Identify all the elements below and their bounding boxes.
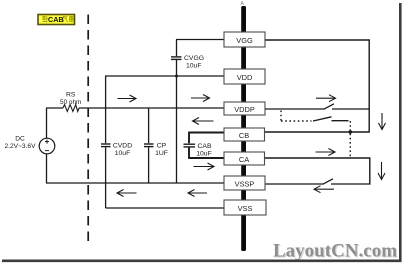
switch S3 blade on VSSP path <box>324 179 334 184</box>
switch S1 blade on VDDP path <box>325 104 335 109</box>
pin VDDP <box>224 102 265 115</box>
svg-text:10uF: 10uF <box>186 63 202 70</box>
arrow: flow left below ground bus (left) <box>117 190 137 197</box>
pin VGG <box>224 32 265 47</box>
pin CB <box>224 128 265 141</box>
arrow: flow right on rail (left) <box>118 95 137 102</box>
wire: control path dotted vertical to CA <box>349 121 351 158</box>
svg-text:VSSP: VSSP <box>235 179 255 188</box>
wire: CB pin right to right-side bus <box>265 131 370 133</box>
svg-text:VDD: VDD <box>237 73 253 82</box>
wire: VDDP pin right (switched segment left) <box>265 108 325 110</box>
svg-text:50 ohm: 50 ohm <box>60 99 81 106</box>
capacitor CP 1UF <box>144 143 168 158</box>
svg-text:LayoutCN.com: LayoutCN.com <box>273 241 397 262</box>
wire: VSS feed <box>106 207 225 209</box>
wire: top rail from DC to RS <box>46 107 63 109</box>
wire: CAB branch vertical <box>188 133 190 159</box>
arrow: flow right below CAB <box>194 163 215 170</box>
arrow: flow left above CAB <box>193 118 214 125</box>
wire: VGG right to right-side bus <box>265 40 369 132</box>
wire: CVDD branch vertical (VDD feed drop) <box>105 76 107 208</box>
wire: CVGG branch vertical <box>176 40 178 184</box>
wire: dashed partition line <box>87 15 89 248</box>
bus A: chip pin column (thick bar) <box>241 1 247 251</box>
arrow: flow down right-side upper <box>379 113 386 130</box>
wire: control path dotted (VDDP to CA) <box>281 111 312 122</box>
junction: dotted control path on CB wire <box>349 130 353 134</box>
svg-text:10uF: 10uF <box>115 150 131 157</box>
wire: CP branch vertical <box>148 108 150 183</box>
wire: control path solid tail <box>332 120 349 122</box>
wire: CA pin right to right-side lower bus <box>265 158 370 184</box>
svg-text:VSS: VSS <box>238 204 253 213</box>
svg-text:VDDP: VDDP <box>234 105 255 114</box>
wire: VGG feed left <box>176 39 225 41</box>
svg-text:1UF: 1UF <box>155 150 168 157</box>
arrow: flow down right-side lower <box>378 162 385 180</box>
svg-text:DC: DC <box>15 136 25 143</box>
pin CA <box>224 152 265 165</box>
wire: VDD feed horizontal <box>105 75 225 77</box>
junction: CVGG branch on VDD feed <box>175 75 178 78</box>
switch S2 blade on dotted control path <box>313 117 332 121</box>
wire: CB pin left to CAB <box>188 132 224 134</box>
svg-text:CVGG: CVGG <box>184 55 204 62</box>
arrow: flow left below VSSP wire <box>314 186 334 193</box>
frame (decorative) <box>399 3 402 262</box>
capacitor CVGG 10uF <box>171 55 204 70</box>
pin VSSP <box>224 176 265 190</box>
svg-text:CP: CP <box>157 143 167 150</box>
wire: DC source bottom lead <box>46 154 48 183</box>
arrow: flow right above VDDP switch <box>316 95 336 102</box>
source V1: DC 2.2V~3.6V <box>5 136 55 154</box>
resistor RS 50 ohm <box>60 91 81 111</box>
arrow: flow left below ground bus (mid) <box>188 190 207 197</box>
pin VSS <box>224 200 266 215</box>
wire: ground bus <box>46 182 225 184</box>
pin VDD <box>224 69 265 84</box>
capacitor CAB 10uF <box>184 143 212 157</box>
watermark LayoutCN.com <box>273 241 398 263</box>
svg-text:VGG: VGG <box>236 36 253 45</box>
capacitor CVDD 10uF <box>101 143 132 158</box>
arrow: flow right above CA wire <box>316 149 336 156</box>
label annotation: 對CAB充電 (charge CAB) <box>38 15 75 25</box>
svg-text:CVDD: CVDD <box>113 143 132 150</box>
wire: CA pin left to CAB <box>188 157 224 159</box>
wire: VDDP pin right (switched segment right) <box>332 108 370 110</box>
svg-text:CAB: CAB <box>198 143 212 150</box>
svg-text:RS: RS <box>66 91 76 98</box>
wire: VSSP pin right (switched segment right) <box>331 183 371 185</box>
wire: top rail RS to VDDP pin <box>79 107 225 109</box>
svg-text:2.2V~3.6V: 2.2V~3.6V <box>5 143 37 150</box>
svg-text:10uF: 10uF <box>196 150 212 157</box>
wire: DC source top lead <box>46 108 48 138</box>
svg-text:CB: CB <box>239 131 249 140</box>
svg-text:CA: CA <box>239 155 249 164</box>
arrow: flow right on rail (mid) <box>191 95 210 102</box>
svg-text:CAB: CAB <box>48 15 64 24</box>
wire: VSSP pin right (switched segment left) <box>265 183 324 185</box>
